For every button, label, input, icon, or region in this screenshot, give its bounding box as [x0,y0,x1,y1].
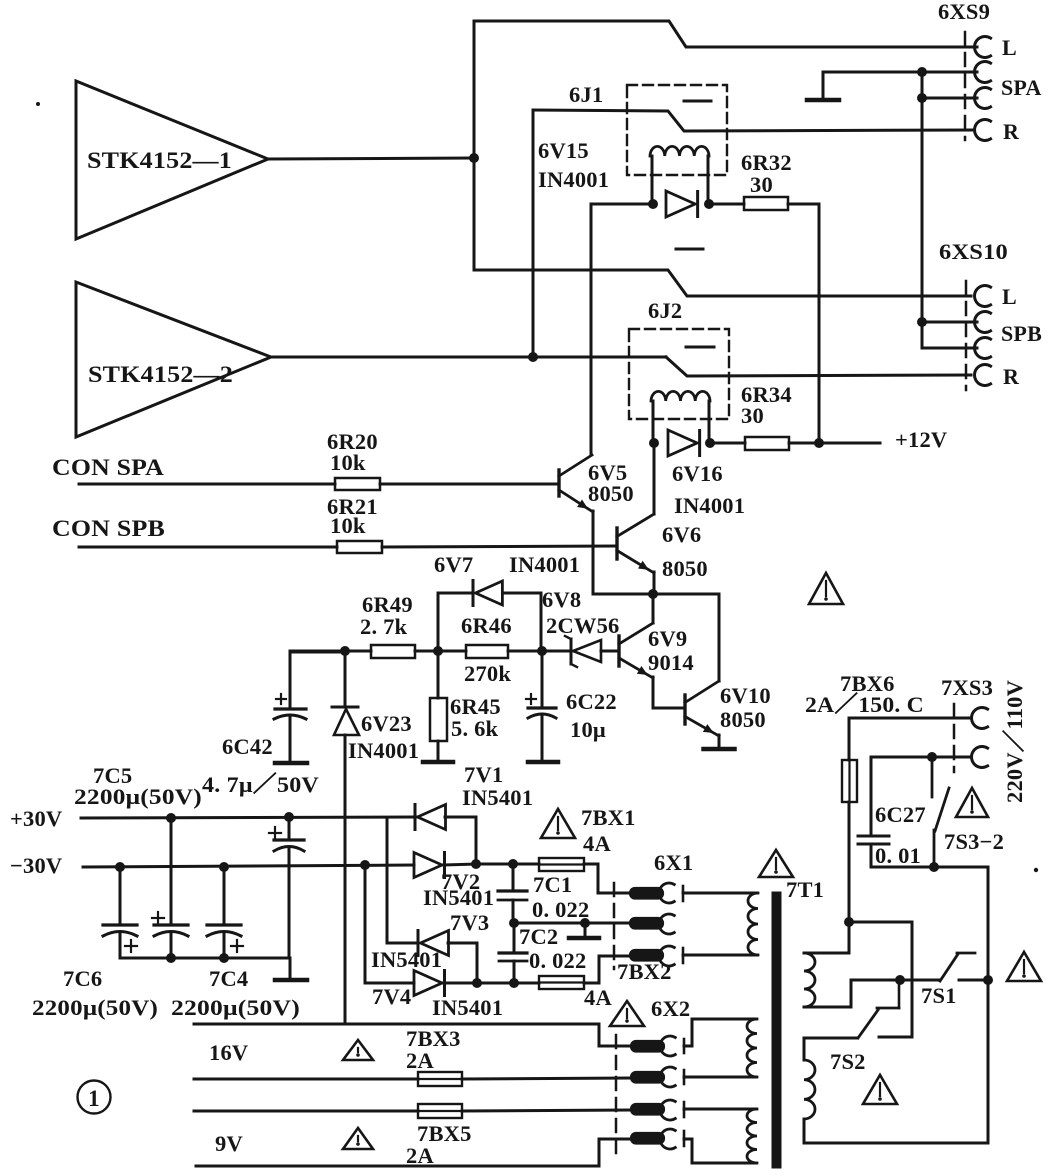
svg-text:6X2: 6X2 [651,996,690,1021]
svg-text:7V3: 7V3 [450,910,489,935]
pin 6X2-4 [631,1129,684,1149]
svg-text:2CW56: 2CW56 [546,613,620,638]
pin 6X2-1 [631,1036,684,1056]
wire CON SPA [79,483,335,486]
pin 6XS10-SPB-1 [975,312,991,333]
wire 7V1 to node [445,817,476,864]
resistor 6R20 [327,429,380,490]
wire STK1 to 6XS10 L [474,158,971,296]
transformer 7T1 winding W2 [804,1060,815,1119]
svg-text:6V16: 6V16 [672,461,723,486]
node 7S1 left [895,975,905,985]
wire bridge bottom to fuse [477,982,539,985]
capacitor 7C2 [499,923,586,983]
circled 1 sheet mark [78,1081,111,1114]
capacitor 6C22 [526,651,617,760]
wire -30V rail [83,865,414,867]
svg-text:8050: 8050 [588,481,634,506]
svg-text:6V10: 6V10 [720,683,771,708]
wire 6V5-collector to 6J1 [591,204,653,455]
node 6R46 left junction [433,646,443,656]
wire W2 top [804,1038,857,1060]
node 7C4 tap [219,862,229,872]
svg-text:L: L [1002,284,1017,309]
svg-text:10k: 10k [330,513,366,538]
diode 7V4 [372,971,503,1021]
terminal bar 6C42 [275,761,307,766]
wire W1 bottom to 7S1 [804,980,900,1007]
svg-text:IN4001: IN4001 [674,493,745,518]
svg-text:9V: 9V [215,1131,243,1156]
svg-text:5. 6k: 5. 6k [451,716,499,741]
svg-text:6J1: 6J1 [569,82,603,107]
wire cap common [120,957,290,960]
fuse 7BX2 [539,959,672,1010]
svg-text:2200μ(50V): 2200μ(50V) [171,995,300,1020]
svg-text:6X1: 6X1 [654,850,693,875]
relay 6J1 lower contact [676,248,703,251]
label -30V [10,853,62,878]
wire 6V6 collector to 6V16 [653,443,656,514]
wire 6V9 collector up [652,594,655,623]
label 7BX6 value [805,692,924,717]
fuse 7BX6 feed [848,718,851,760]
wire 6V15 to 6R32 [709,203,744,206]
label CON SPB [52,516,165,541]
svg-text:6V9: 6V9 [648,626,687,651]
svg-text:1: 1 [88,1086,100,1111]
wire 6R21 to 6V6 base [382,546,616,547]
transistor 6V6 [617,514,708,581]
wire 7BX2 to 6X1 pin3 [584,956,630,983]
wire 6X1-3 to winding [683,954,757,957]
wire 6X1-1 to winding [683,892,757,895]
svg-text:CON SPA: CON SPA [52,455,164,480]
label 7C5 value [74,784,202,809]
resistor 6R45 [430,651,501,761]
scan speck 2 [1034,868,1038,872]
svg-text:6C22: 6C22 [566,689,617,714]
node 6R49 left junction [340,646,350,656]
svg-text:6V6: 6V6 [662,522,701,547]
node +12V junction [814,438,824,448]
op-amp STK4152-2 [76,282,271,437]
pin 6X1-1 [630,883,683,903]
relay 6J1 box [627,85,727,175]
wire SPB junction to pin [922,321,977,324]
wire 7V3 branch [387,818,418,943]
wire to SPA-2 pin [922,97,977,100]
svg-text:6J2: 6J2 [648,298,682,323]
wire 6X2 pin1 feed [599,1024,630,1046]
node SPA-2 junction [917,93,927,103]
svg-text:7XS3: 7XS3 [941,675,993,700]
svg-text:4A: 4A [583,831,611,856]
pin 6XS10-L [975,284,1017,309]
pin 6XS9-SPA-2 [975,75,1042,109]
node bridge bottom [472,978,482,988]
svg-text:6V8: 6V8 [542,587,581,612]
svg-text:SPA: SPA [1001,75,1042,100]
node 6V15 anode [648,199,658,209]
svg-text:7T1: 7T1 [786,877,824,902]
node 7C5 tap [166,813,176,823]
wire 6V5 emitter down [592,511,595,594]
capacitor 6C42 [222,652,343,761]
node 6V16 anode [649,438,659,448]
diode 6V7 branch [438,593,541,651]
svg-text:0. 022: 0. 022 [529,948,586,973]
scan speck [36,102,40,106]
node emitter junction [648,589,658,599]
svg-text:7C6: 7C6 [63,966,102,991]
transformer 7T1 core [772,892,781,1168]
label 7C5 [93,763,132,788]
wire 6R34 to +12V [789,442,880,445]
svg-text:6R46: 6R46 [461,613,512,638]
node 7C2 bottom [509,978,519,988]
svg-text:IN5401: IN5401 [462,785,533,810]
transistor 6V10 [685,681,771,736]
svg-text:4. 7μ／50V: 4. 7μ／50V [202,772,319,797]
connector 6XS10 dashed line [965,281,968,390]
node STK2-out junction [528,352,538,362]
label 7XS3 [941,675,993,700]
resistor 6R34 [741,382,792,450]
capacitor 4.7u/50V [269,817,304,958]
resistor 6R46 [461,613,512,686]
wire top rail to 6XS9 L [474,21,977,47]
ground at 6C22 [528,760,558,765]
node SPA junction [917,67,927,77]
wire 7BX1 to 6X1 pin1 [584,864,630,893]
wire 7BX5 to 6X2 [462,1110,630,1111]
svg-text:30: 30 [750,172,773,197]
svg-text:IN4001: IN4001 [509,552,580,577]
wire 7V3 to node [448,943,477,983]
wire 7V4 branch [365,865,414,983]
warning triangle mid [809,573,843,604]
svg-text:IN5401: IN5401 [432,995,503,1020]
transformer 6X2 lower winding [747,1109,757,1163]
node common 7C5 [166,953,176,963]
pin 6X2-3 [631,1100,684,1120]
wire 6J1 arm to 6XS9 R [533,110,973,131]
wire to SPB-2 pin [922,347,977,350]
svg-text:IN5401: IN5401 [371,947,442,972]
label 6J2 [648,298,682,323]
capacitor 6C27 [858,757,926,868]
wire 6V9 emitter to 6V10 base [653,677,684,708]
svg-text:7C2: 7C2 [519,924,558,949]
svg-text:−30V: −30V [10,853,62,878]
wire 7T1 winding1 top [804,922,849,953]
op-amp STK4152-1 [76,81,268,239]
svg-text:270k: 270k [464,661,511,686]
label 7BX6 [840,671,895,696]
relay 6J2 coil [651,391,710,443]
switch 7S2 [830,980,899,1074]
wire STK1 to top rail [473,21,476,158]
wire 16V fuse rail [194,1078,418,1081]
capacitor 7C6 [103,867,137,958]
label 2200u right [171,995,300,1020]
wire SPB vertical [921,322,924,348]
wire 6V10 collector up [718,594,721,681]
pin 6XS9-R [975,119,1020,144]
wire 7T1 to 7S2 contact [849,922,912,1037]
label 6J1 [569,82,603,107]
diode 6V23 [332,651,419,763]
connector 6XS9 dashed line [964,32,967,140]
node 7S1 right [983,975,993,985]
warning triangle 9V [343,1128,373,1149]
pin 7XS3-2 [972,747,988,768]
node mid ground tap [580,918,590,928]
label CON SPA [52,455,164,480]
connector 7XS3 dashed line [953,704,956,772]
svg-text:6V15: 6V15 [538,138,589,163]
warning triangle 7T1 [759,850,793,877]
resistor 6R21 [327,494,382,553]
fuse 7BX3 [406,1026,462,1086]
ground at 7C2 mid [519,923,599,949]
wire bridge top to fuse [476,863,539,866]
wire 7XS3 pin1 [849,717,971,720]
svg-text:6C42: 6C42 [222,734,273,759]
svg-text:6V23: 6V23 [361,711,412,736]
wire 6C27 bottom [871,867,988,1143]
label 6X1 [654,850,693,875]
resistor 6R32 [741,150,792,210]
transistor 6V5 [559,455,634,512]
svg-text:2A: 2A [406,1143,434,1168]
switch 7S3-2 [932,757,1004,867]
node 7T1 primary top [844,917,854,927]
diode 6V16 [668,430,745,518]
pin 7XS3-1 [972,708,988,729]
connector 6X1 dashed line [613,883,616,969]
wire 6R20 to 6V5 base [380,483,558,486]
warning triangle right [1007,952,1041,981]
svg-text:7C4: 7C4 [209,966,248,991]
svg-text:SPB: SPB [1001,321,1042,346]
wire 6R32 to +12V rail [788,204,819,443]
wire 6X2-1 to winding [684,1019,756,1046]
fuse 7BX6 [842,760,857,802]
wire 6V6 emitter down [653,572,656,594]
pin 6X1-2 [630,914,674,934]
node 7C1 top [508,859,518,869]
diode 7V2 [414,853,494,911]
wire SPA vertical [921,72,924,322]
wire 6V16 to 6R34 [710,442,745,445]
svg-text:2A: 2A [406,1048,434,1073]
wire 6R49 to 6R46 [415,650,466,653]
pin 6XS10-SPB-2 [975,321,1043,359]
svg-text:7BX1: 7BX1 [581,805,636,830]
wire 6X2-4 to winding [684,1139,756,1163]
svg-text:2A／150. C: 2A／150. C [805,692,924,717]
svg-text:7V4: 7V4 [372,984,411,1009]
wire 9V fuse rail [194,1110,418,1113]
svg-text:+30V: +30V [10,806,62,831]
label 220V/110V [1002,680,1027,803]
wire +30V rail [81,817,416,818]
svg-text:10k: 10k [330,450,366,475]
node SPB junction [917,317,927,327]
wire mid to 6X1 [514,922,630,925]
wire 7BX3 to 6X2 [462,1078,630,1079]
wire STK2 output [271,356,533,359]
diode 6V7 [434,552,580,606]
fuse 7BX5 [406,1104,472,1168]
svg-text:IN5401: IN5401 [423,885,494,910]
node -30V 7V4 tap [360,860,370,870]
connector 6X2 dashed line [615,1035,618,1154]
node 7S3-2 bottom [929,862,939,872]
node common 7C4 [219,953,229,963]
svg-text:L: L [1002,35,1017,60]
node 6V15 cathode [704,199,714,209]
label 4.7u [202,772,319,797]
wire CON SPB [79,546,337,549]
svg-text:IN4001: IN4001 [538,167,609,192]
svg-text:R: R [1003,119,1020,144]
node bridge top [471,859,481,869]
pin 6X2-2 [631,1067,684,1087]
wire STK2 to 6J2 arm [533,356,666,359]
label +12V [895,427,947,452]
label 6XS9 [938,0,990,24]
svg-text:CON SPB: CON SPB [52,516,165,541]
diode 6V15 [538,138,698,217]
svg-text:0. 022: 0. 022 [532,897,589,922]
pin 6XS10-R [975,364,1020,389]
wire STK2 to 6J1 arm [532,110,535,357]
fuse 7BX1 [539,805,636,871]
pin 6XS9-L [975,35,1017,60]
svg-text:30: 30 [741,403,764,428]
svg-text:2200μ(50V): 2200μ(50V) [32,995,158,1020]
capacitor 7C5 [63,818,188,991]
wire 7V2 cathode stub [444,864,476,865]
wire 6X2-3 to winding [684,1108,756,1111]
capacitor 7C1 [498,864,589,923]
label 9V [215,1131,243,1156]
label 7T1 [786,877,824,902]
node 6C22 junction [537,646,547,656]
warning triangle 16V [343,1040,373,1060]
warning triangle 7S2 [863,1075,897,1104]
capacitor 7C4 [207,867,248,991]
warning triangle 6X2 [610,1001,644,1026]
diode 7V1 [415,762,533,830]
svg-text:220V／110V: 220V／110V [1002,680,1027,803]
svg-text:7S1: 7S1 [921,983,957,1008]
wire gnd to SPA pin [823,71,977,74]
label 6X2 [651,996,690,1021]
switch 7S1 [900,953,988,1008]
node 7C1/7C2 mid [509,918,519,928]
svg-text:7V1: 7V1 [464,762,503,787]
ground at 6R45 [423,760,453,765]
relay 6J2 box [629,329,729,419]
svg-text:R: R [1003,364,1020,389]
wire 6R46 to 6V8 [508,650,571,653]
ground at cap common [275,958,307,980]
svg-text:7S3−2: 7S3−2 [944,829,1004,854]
wire bias node [290,650,371,653]
wire 9V bottom rail [196,1139,630,1166]
label 16V [209,1040,248,1065]
svg-text:7S2: 7S2 [830,1049,866,1074]
wire 7V4 cathode stub [444,982,477,985]
wire 6X2-2 to winding [684,1076,756,1079]
svg-text:+12V: +12V [895,427,947,452]
node 7C6 tap [115,862,125,872]
svg-text:9014: 9014 [648,650,694,675]
relay 6J2 contact [686,346,714,349]
wire 6J2 arm to 6XS10 R [666,357,971,376]
wire 7BX6 to 7T1 [848,802,851,922]
wire 6V23 down [344,735,347,1024]
svg-text:6C27: 6C27 [875,802,926,827]
relay 6J1 contact [684,100,711,103]
wire 7XS3 pin2 [871,756,971,759]
svg-text:7C1: 7C1 [533,872,572,897]
svg-text:0. 01: 0. 01 [875,843,921,868]
resistor 6R49 [360,592,415,658]
wire 16V top rail [194,1023,599,1026]
zener 6V8 2CW56 [542,587,620,667]
warning triangle 7BX1 [541,809,575,838]
label +30V [10,806,62,831]
ground at 6XS9 SPA [807,72,839,100]
svg-text:STK4152—1: STK4152—1 [87,148,232,174]
warning triangle 7S3-2 [956,788,988,817]
svg-text:6V7: 6V7 [434,552,473,577]
ground at 6V10 emitter [704,735,735,749]
svg-text:2200μ(50V): 2200μ(50V) [74,784,202,809]
svg-text:6XS10: 6XS10 [939,239,1008,264]
label 6XS10 [939,239,1008,264]
wire STK1 output [268,158,474,159]
node STK1-out junction [469,153,479,163]
diode 7V3 [371,910,489,972]
node 6V16 cathode [705,438,715,448]
svg-text:8050: 8050 [720,707,766,732]
svg-text:16V: 16V [209,1040,248,1065]
transistor 6V9 [619,623,694,678]
pin 6XS9-SPA-1 [975,62,991,83]
svg-text:8050: 8050 [662,556,708,581]
svg-text:6XS9: 6XS9 [938,0,990,24]
node 7S3-2 top [927,752,937,762]
wire W2 bottom loop [804,1119,988,1143]
pin 6X1-3 [630,946,683,966]
svg-text:STK4152—2: STK4152—2 [88,362,233,388]
svg-text:2. 7k: 2. 7k [360,614,408,639]
transformer 6X2 upper winding [747,1019,757,1077]
label 2200u left [32,995,158,1020]
relay 6J1 coil [650,146,709,204]
svg-text:IN4001: IN4001 [348,738,419,763]
transformer 7T1 winding W1 [804,953,815,1007]
transformer 7T1 primary winding [748,893,758,955]
svg-text:4A: 4A [584,985,612,1010]
node 4.7u tap [284,812,294,822]
